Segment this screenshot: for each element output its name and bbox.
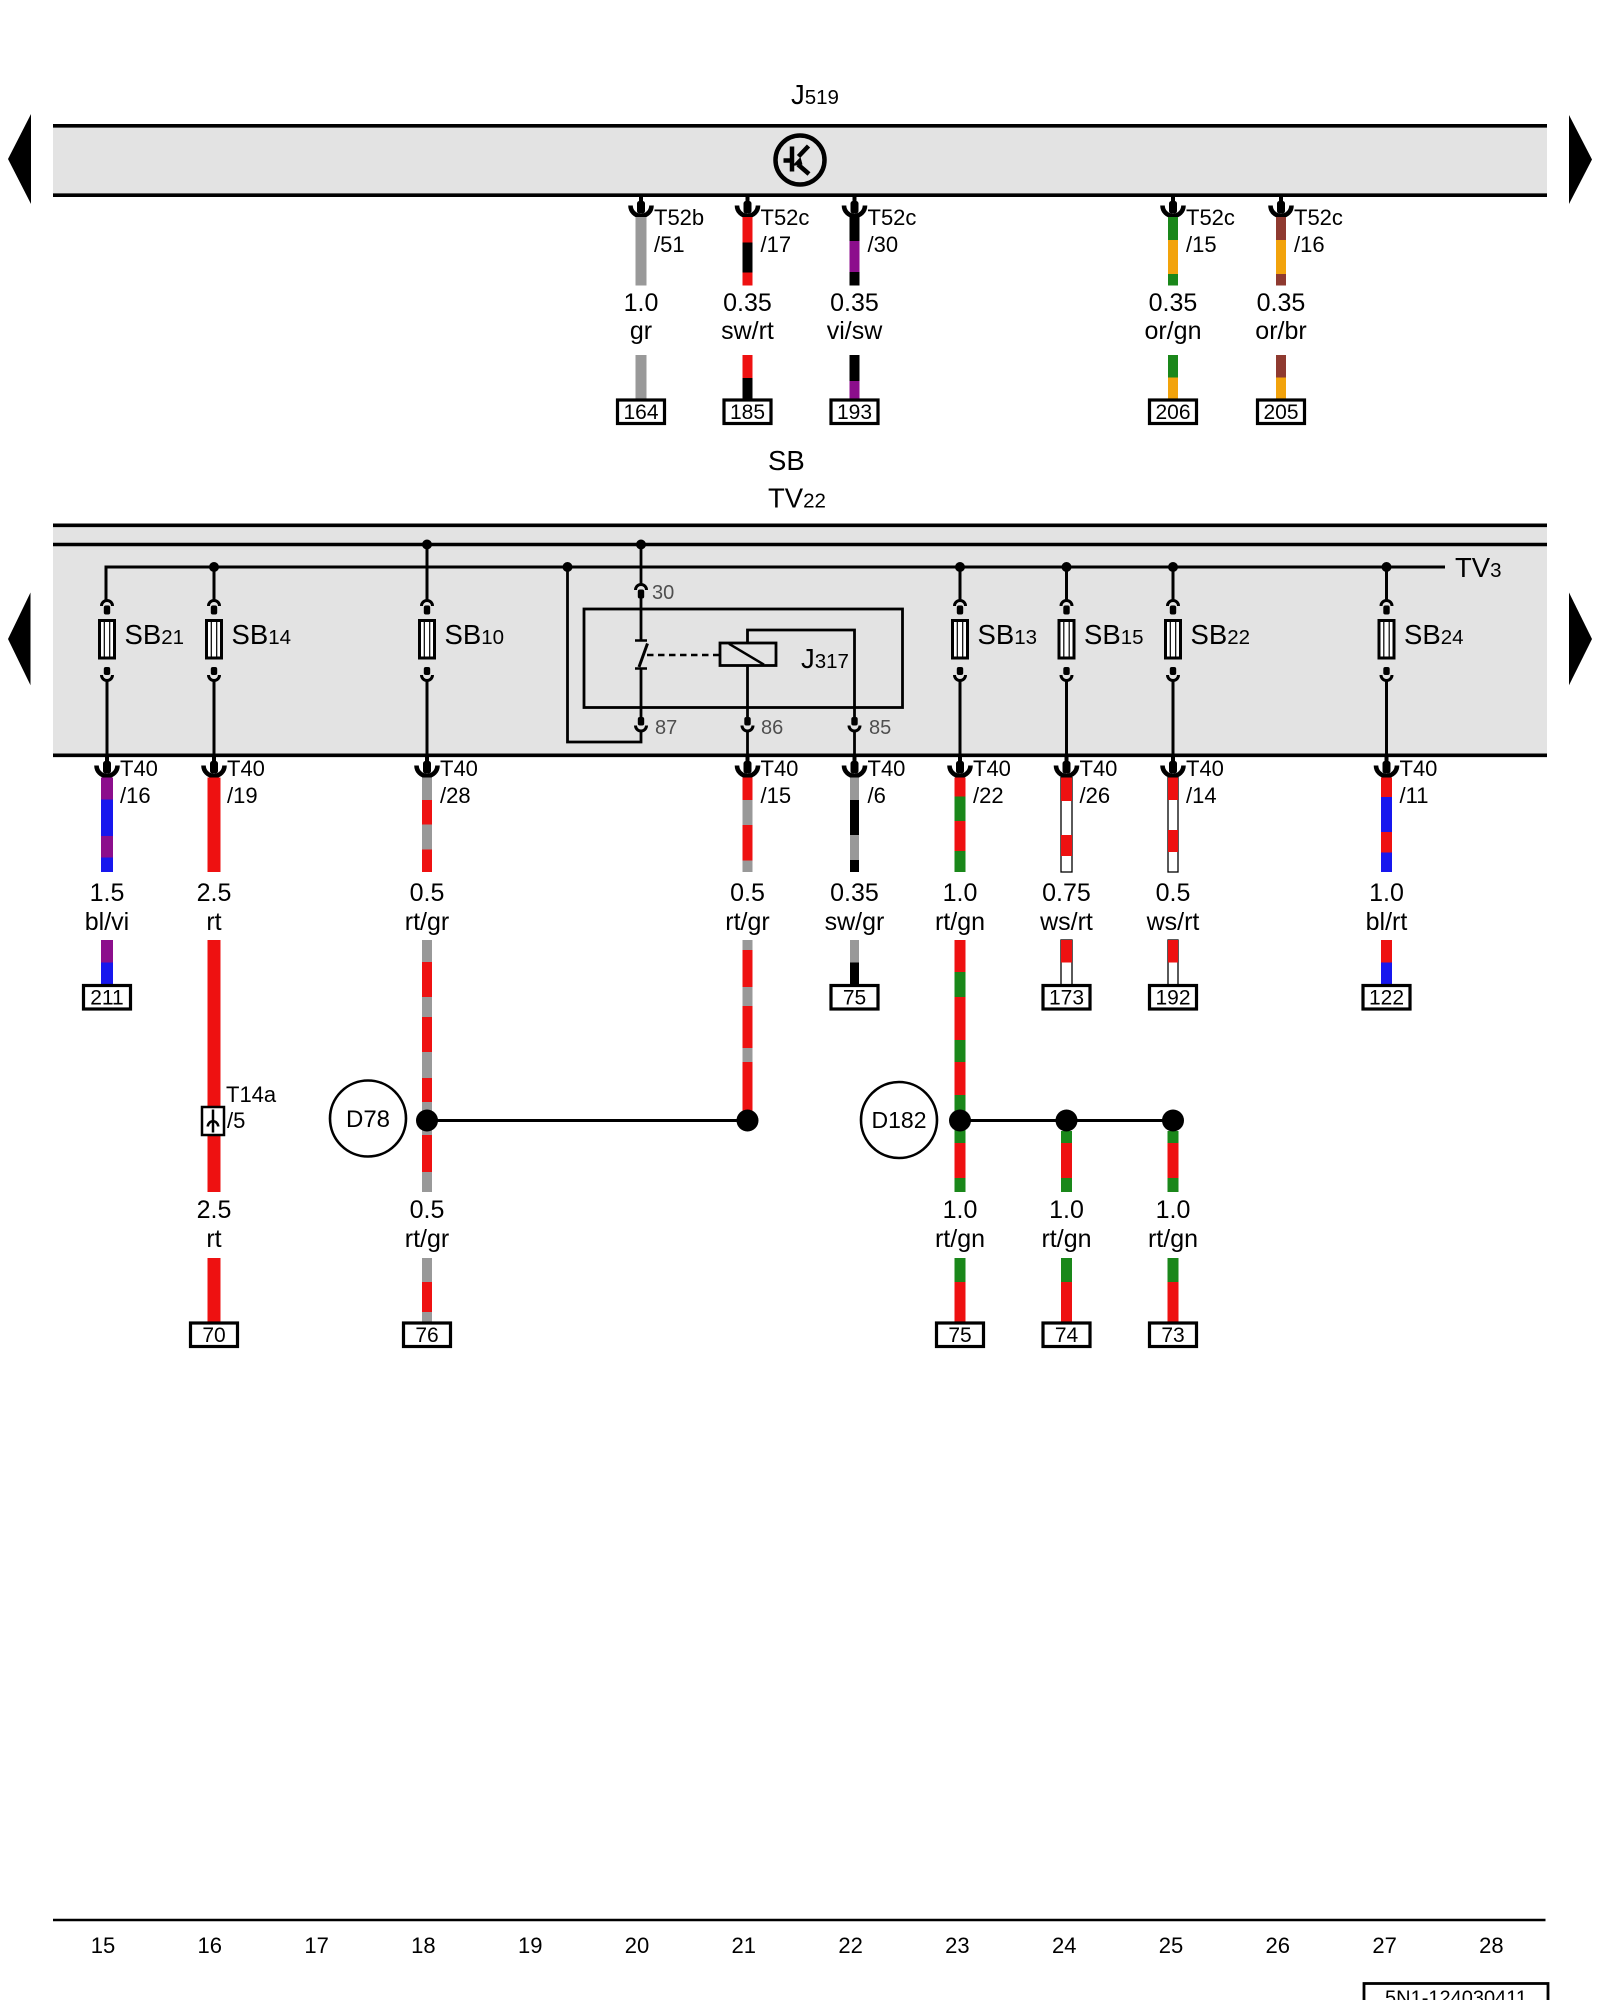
fuse SB14 [209, 601, 220, 607]
fuse panel bar [53, 524, 1547, 758]
svg-text:T14a: T14a [226, 1082, 277, 1107]
node box 193 [831, 400, 878, 424]
junction on TV3 bus x=1066.5 [1062, 562, 1072, 572]
node box 75 [831, 986, 878, 1010]
svg-text:0.35: 0.35 [830, 879, 879, 907]
svg-text:T40: T40 [868, 756, 906, 781]
svg-text:rt/gn: rt/gn [1041, 1225, 1091, 1253]
wire coil to pin 85 loop [748, 630, 855, 717]
svg-text:0.35: 0.35 [1257, 289, 1306, 317]
svg-text:0.35: 0.35 [723, 289, 772, 317]
node D182 [861, 1082, 937, 1158]
connector T40/11 [1385, 755, 1389, 763]
svg-text:211: 211 [90, 987, 123, 1010]
svg-text:rt: rt [206, 908, 221, 936]
svg-text:T40: T40 [973, 756, 1011, 781]
svg-text:D182: D182 [872, 1107, 927, 1133]
svg-text:164: 164 [623, 401, 658, 424]
wire TV3 to fuse x=1066.5 [1065, 567, 1068, 600]
wire 1.0 gr upper [636, 217, 647, 286]
svg-text:rt/gn: rt/gn [935, 908, 985, 936]
relay J317 outline [584, 609, 903, 708]
node box 164 [618, 400, 665, 424]
wire 2.5 rt bottom (col16) [208, 1258, 221, 1323]
wire 1.0 rt/gn bottom (col23) [955, 1258, 966, 1282]
svg-text:185: 185 [730, 401, 765, 424]
svg-text:0.75: 0.75 [1042, 879, 1091, 907]
relay pin 86 [744, 717, 750, 726]
svg-text:bl/vi: bl/vi [85, 908, 129, 936]
svg-text:1.0: 1.0 [943, 1196, 978, 1224]
wire 0.35 or/gn upper [1168, 217, 1178, 240]
svg-text:2.5: 2.5 [197, 879, 232, 907]
wire 0.35 vi/sw lower [850, 355, 860, 381]
node D78 [330, 1081, 406, 1157]
svg-text:76: 76 [415, 1324, 438, 1347]
wire 0.35 vi/sw upper [850, 217, 860, 241]
svg-text:0.5: 0.5 [410, 879, 445, 907]
fuse SB21 [102, 601, 113, 607]
svg-text:21: 21 [732, 1933, 756, 1958]
relay pin 87 [640, 717, 643, 718]
wire junction D182 horizontal [960, 1119, 1173, 1122]
wire pin 87 return to TV3 [568, 567, 642, 742]
wire 0.75 ws/rt lower [1061, 940, 1072, 986]
page arrow left (middle) [8, 593, 31, 686]
wire to SB14 [213, 567, 216, 600]
node box 76 [404, 1323, 451, 1347]
svg-text:T40: T40 [227, 756, 265, 781]
wire coil to pin 86 [746, 666, 749, 718]
wire 0.5 rt/gr middle (col21) [743, 940, 753, 950]
node box 206 [1150, 400, 1197, 424]
wire 1.0 rt/gn upper [955, 778, 966, 797]
wire TV3 to fuse x=1386.5 [1385, 567, 1388, 600]
svg-text:/15: /15 [761, 783, 792, 808]
bus symbol (circled K) in J519 [776, 136, 825, 185]
svg-text:/51: /51 [654, 232, 685, 257]
bus TV22 [53, 543, 1547, 546]
wire 2.5 rt middle (col16) [208, 940, 221, 1192]
wire 2.5 rt upper [208, 778, 221, 873]
wire 0.5 rt/gr upper [422, 778, 432, 801]
connector T52c/16 [1279, 195, 1283, 203]
junction on TV3 bus x=1386.5 [1382, 562, 1392, 572]
node box 205 [1258, 400, 1305, 424]
svg-text:SB: SB [768, 445, 805, 476]
node box 211 [84, 986, 131, 1010]
svg-text:75: 75 [948, 1324, 971, 1347]
junction on TV3 bus x=214 [209, 562, 219, 572]
svg-text:ws/rt: ws/rt [1146, 908, 1200, 936]
svg-text:205: 205 [1263, 401, 1298, 424]
svg-text:T52c: T52c [1186, 205, 1235, 230]
node box 185 [724, 400, 771, 424]
svg-text:75: 75 [843, 987, 866, 1010]
svg-text:T40: T40 [1186, 756, 1224, 781]
connector T40/19 [212, 755, 216, 763]
relay coil actuation (dashed) [647, 654, 719, 657]
junction on TV3 bus x=960 [955, 562, 965, 572]
fuse SB15 [1061, 601, 1072, 607]
svg-text:/17: /17 [761, 232, 792, 257]
svg-text:1.0: 1.0 [624, 289, 659, 317]
svg-text:85: 85 [869, 717, 891, 739]
wire 0.75 ws/rt upper [1061, 778, 1072, 873]
svg-text:192: 192 [1155, 987, 1190, 1010]
svg-text:122: 122 [1369, 987, 1404, 1010]
wire 0.5 rt/gr middle (col18) [422, 940, 432, 962]
svg-text:19: 19 [518, 1933, 542, 1958]
junction on TV22 bus x=641 [636, 540, 646, 550]
svg-text:rt/gr: rt/gr [405, 1225, 449, 1253]
connector T40/22 [958, 755, 962, 763]
wire 0.35 sw/rt upper [743, 217, 753, 243]
svg-text:74: 74 [1055, 1324, 1079, 1347]
wire TV3 to fuse x=1173 [1172, 567, 1175, 600]
svg-text:rt/gr: rt/gr [405, 908, 449, 936]
svg-text:T40: T40 [761, 756, 799, 781]
svg-text:/15: /15 [1186, 232, 1217, 257]
wire 1.0 gr lower [636, 355, 647, 400]
svg-text:rt/gn: rt/gn [1148, 1225, 1198, 1253]
svg-text:sw/gr: sw/gr [825, 908, 885, 936]
svg-text:/5: /5 [227, 1108, 245, 1133]
wire TV3 to fuse x=960 [959, 567, 962, 600]
page arrow right (top) [1569, 115, 1592, 204]
wire 1.0 rt/gn middle (col23) [955, 940, 966, 972]
svg-text:0.5: 0.5 [730, 879, 765, 907]
svg-text:24: 24 [1052, 1933, 1076, 1958]
connector T40/16 [105, 755, 109, 763]
svg-text:T52c: T52c [761, 205, 810, 230]
svg-text:27: 27 [1372, 1933, 1396, 1958]
svg-text:T40: T40 [1400, 756, 1438, 781]
wire 1.0 bl/rt upper [1381, 778, 1392, 798]
wire 1.0 rt/gn stub (col25) [1168, 1131, 1179, 1143]
svg-text:ws/rt: ws/rt [1039, 908, 1093, 936]
svg-text:25: 25 [1159, 1933, 1183, 1958]
svg-text:30: 30 [652, 582, 674, 604]
svg-text:15: 15 [91, 1933, 115, 1958]
wire 1.0 rt/gn stub (col24) [1061, 1131, 1072, 1143]
wire 0.5 rt/gr upper [743, 778, 753, 801]
wire 0.35 or/gn lower [1168, 355, 1178, 378]
svg-text:sw/rt: sw/rt [721, 317, 774, 345]
svg-text:/16: /16 [120, 783, 151, 808]
wire 0.35 sw/gr upper [850, 778, 859, 801]
connector T52b/51 [639, 195, 643, 203]
connector T40/26 [1065, 755, 1069, 763]
svg-text:26: 26 [1266, 1933, 1290, 1958]
svg-text:70: 70 [202, 1324, 225, 1347]
svg-text:/14: /14 [1186, 783, 1217, 808]
fuse SB22 [1168, 601, 1179, 607]
connector T52c/17 [746, 195, 750, 203]
node box 73 [1150, 1323, 1197, 1347]
svg-text:T52c: T52c [1294, 205, 1343, 230]
node box 75 [937, 1323, 984, 1347]
junction on TV22 bus x=427 [422, 540, 432, 550]
fuse SB13 [955, 601, 966, 607]
wire 0.35 or/br upper [1276, 217, 1286, 240]
wire 0.5 ws/rt upper [1168, 778, 1178, 873]
svg-text:gr: gr [630, 317, 652, 345]
wire 1.0 rt/gn bottom (col25) [1168, 1258, 1179, 1282]
svg-text:rt/gr: rt/gr [725, 908, 769, 936]
svg-text:0.5: 0.5 [1156, 879, 1191, 907]
svg-text:16: 16 [198, 1933, 222, 1958]
relay switch contact [640, 599, 643, 641]
svg-text:86: 86 [761, 717, 783, 739]
fuse SB10 [422, 601, 433, 607]
relay pin 30 [636, 585, 647, 591]
svg-text:/16: /16 [1294, 232, 1325, 257]
svg-text:/6: /6 [868, 783, 886, 808]
svg-text:/11: /11 [1400, 783, 1429, 808]
wire junction D78 horizontal [427, 1119, 748, 1122]
svg-text:T40: T40 [1080, 756, 1118, 781]
svg-text:/26: /26 [1080, 783, 1111, 808]
wire 1.0 bl/rt lower [1381, 940, 1392, 963]
svg-text:173: 173 [1049, 987, 1084, 1010]
svg-text:D78: D78 [346, 1106, 390, 1133]
svg-text:/28: /28 [440, 783, 471, 808]
wire 1.5 bl/vi upper [101, 778, 113, 800]
svg-text:1.0: 1.0 [1049, 1196, 1084, 1224]
node box 192 [1150, 986, 1197, 1010]
svg-text:rt: rt [206, 1225, 221, 1253]
svg-text:1.0: 1.0 [1156, 1196, 1191, 1224]
ruler line [53, 1919, 1546, 1921]
svg-text:T40: T40 [440, 756, 478, 781]
svg-text:28: 28 [1479, 1933, 1503, 1958]
wire 0.35 sw/rt lower [743, 355, 753, 378]
wire 0.5 ws/rt lower [1168, 940, 1178, 986]
svg-text:or/br: or/br [1255, 317, 1306, 345]
wire TV3 corner to SB21 [105, 566, 108, 601]
page arrow left (top) [8, 114, 31, 204]
connector T40/6 [853, 755, 857, 763]
bus TV3 [106, 566, 1445, 569]
svg-text:vi/sw: vi/sw [827, 317, 884, 345]
node box 74 [1043, 1323, 1090, 1347]
svg-text:87: 87 [655, 717, 677, 739]
junction on TV3 bus x=567.5 [563, 562, 573, 572]
svg-text:17: 17 [304, 1933, 328, 1958]
svg-text:1.0: 1.0 [1369, 879, 1404, 907]
svg-text:/19: /19 [227, 783, 258, 808]
svg-text:or/gn: or/gn [1145, 317, 1202, 345]
wire TV22 to SB10 [426, 545, 429, 601]
wire pin 86 down [746, 732, 749, 754]
svg-text:0.35: 0.35 [1149, 289, 1198, 317]
svg-text:18: 18 [411, 1933, 435, 1958]
wire pin 85 down [853, 732, 856, 754]
svg-text:T40: T40 [120, 756, 158, 781]
svg-text:1.5: 1.5 [90, 879, 125, 907]
wire 0.35 sw/gr lower [850, 940, 859, 963]
control unit bar J519 [53, 124, 1547, 197]
svg-text:5N1-124030411: 5N1-124030411 [1385, 1988, 1527, 2000]
connector T52c/30 [853, 195, 857, 203]
node box 173 [1043, 986, 1090, 1010]
connector T52c/15 [1171, 195, 1175, 203]
svg-text:0.35: 0.35 [830, 289, 879, 317]
fuse SB24 [1381, 601, 1392, 607]
svg-text:/22: /22 [973, 783, 1004, 808]
connector T40/28 [425, 755, 429, 763]
wire 0.35 or/br lower [1276, 355, 1286, 378]
connector T14a/5 [202, 1107, 224, 1135]
svg-text:bl/rt: bl/rt [1366, 908, 1408, 936]
node box 122 [1363, 986, 1410, 1010]
relay pin 85 [851, 717, 857, 726]
svg-text:T52c: T52c [868, 205, 917, 230]
svg-text:23: 23 [945, 1933, 969, 1958]
junction on TV3 bus x=1173 [1168, 562, 1178, 572]
wire TV22 to relay pin 30 [640, 545, 643, 586]
drawing number box [1364, 1984, 1548, 2000]
connector T40/14 [1171, 755, 1175, 763]
svg-text:0.5: 0.5 [410, 1196, 445, 1224]
svg-text:206: 206 [1155, 401, 1190, 424]
svg-text:20: 20 [625, 1933, 649, 1958]
page arrow right (middle) [1569, 593, 1592, 686]
svg-text:/30: /30 [868, 232, 899, 257]
svg-text:73: 73 [1161, 1324, 1184, 1347]
svg-text:1.0: 1.0 [943, 879, 978, 907]
svg-text:rt/gn: rt/gn [935, 1225, 985, 1253]
wire 1.5 bl/vi lower [101, 940, 113, 963]
wire 0.5 rt/gr bottom (col18) [422, 1258, 432, 1282]
svg-text:2.5: 2.5 [197, 1196, 232, 1224]
svg-text:193: 193 [837, 401, 872, 424]
relay coil J317 [720, 643, 776, 666]
wire 1.0 rt/gn bottom (col24) [1061, 1258, 1072, 1282]
node box 70 [191, 1323, 238, 1347]
svg-text:T52b: T52b [654, 205, 704, 230]
svg-text:22: 22 [838, 1933, 862, 1958]
connector T40/15 [746, 755, 750, 763]
